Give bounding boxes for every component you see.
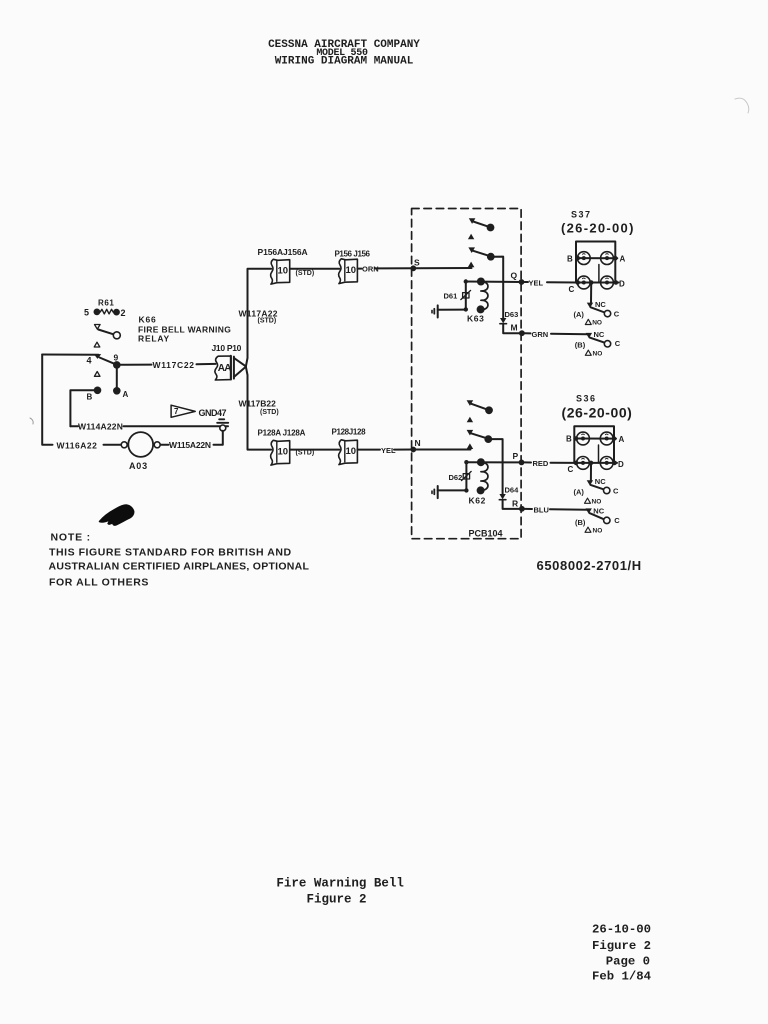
- diode D61 branch: [465, 282, 467, 310]
- ground GND47 indicator triangle 7: [171, 405, 195, 417]
- svg-text:D61: D61: [444, 292, 458, 301]
- svg-text:D: D: [619, 280, 625, 289]
- node Q: [519, 279, 525, 285]
- svg-text:(26-20-00): (26-20-00): [561, 221, 635, 236]
- wire W115A22N: [160, 431, 223, 445]
- svg-text:D63: D63: [505, 310, 519, 319]
- svg-text:NO: NO: [593, 350, 603, 357]
- svg-text:10: 10: [346, 446, 357, 457]
- svg-text:26-10-00: 26-10-00: [592, 923, 651, 937]
- svg-text:RELAY: RELAY: [138, 334, 170, 344]
- triangle marker K62: [467, 417, 473, 423]
- svg-text:C: C: [613, 486, 619, 495]
- S36 switch (A) NC contact: [587, 480, 593, 485]
- svg-text:B: B: [566, 435, 572, 444]
- contact 9: [113, 361, 121, 369]
- node S: [410, 265, 416, 271]
- ground GND47 symbol: [219, 418, 224, 420]
- S36 B-A row line: [574, 438, 616, 440]
- S37 C-D row line: [577, 282, 619, 284]
- svg-text:W115A22N: W115A22N: [169, 440, 211, 450]
- svg-text:(STD): (STD): [296, 270, 315, 277]
- svg-text:4: 4: [87, 356, 92, 366]
- wire to contact 4: [42, 354, 98, 356]
- connector J10 P10 (AA): [215, 356, 231, 380]
- switch arm 4-9: [100, 358, 115, 364]
- node R: [519, 506, 525, 512]
- contact B: [94, 387, 102, 395]
- wire with (STD) label: [290, 268, 339, 270]
- diode D64: [499, 494, 505, 499]
- S37 switch (A) arm: [591, 307, 605, 312]
- S36 lamp C: [577, 457, 590, 470]
- svg-text:P: P: [513, 451, 519, 461]
- wire W117A22 vertical: [246, 269, 271, 367]
- S36 switch (A) drop wire: [590, 465, 592, 480]
- scan artifact arc top right: [735, 98, 749, 113]
- svg-text:P128J128: P128J128: [332, 427, 367, 436]
- svg-text:R: R: [512, 499, 518, 509]
- contact 4 arrow: [94, 354, 101, 359]
- diode D62 symbol: [463, 474, 469, 479]
- diode D61 symbol: [463, 293, 469, 298]
- connector P156 J156: [339, 259, 358, 284]
- svg-text:D64: D64: [505, 486, 520, 495]
- svg-text:10: 10: [346, 265, 357, 276]
- svg-text:A03: A03: [129, 461, 148, 471]
- svg-text:A: A: [619, 435, 625, 444]
- wire with (STD) label bottom: [290, 449, 339, 451]
- svg-text:WIRING DIAGRAM MANUAL: WIRING DIAGRAM MANUAL: [275, 56, 414, 68]
- wire D64 to node R: [503, 500, 522, 509]
- node N: [410, 447, 416, 453]
- dashed box PCB104: [412, 209, 521, 539]
- svg-text:(B): (B): [575, 341, 586, 350]
- svg-text:K66: K66: [139, 315, 157, 325]
- relay K63 contact arm 2: [468, 247, 475, 253]
- svg-text:B: B: [87, 393, 93, 402]
- svg-text:P156 J156: P156 J156: [335, 250, 371, 259]
- svg-text:(A): (A): [574, 310, 585, 319]
- svg-text:NO: NO: [593, 527, 603, 534]
- svg-text:N: N: [415, 438, 421, 448]
- svg-text:W117B22: W117B22: [239, 398, 277, 408]
- svg-text:C: C: [569, 285, 575, 294]
- S37 switch (A) NC contact: [587, 303, 593, 308]
- node M: [519, 330, 525, 336]
- svg-text:2: 2: [121, 308, 126, 318]
- svg-text:D: D: [618, 460, 624, 469]
- resistor R61: [94, 309, 101, 316]
- connector P128 J128: [339, 440, 358, 465]
- svg-text:Q: Q: [511, 271, 518, 281]
- svg-text:AUSTRALIAN CERTIFIED AIRPLANES: AUSTRALIAN CERTIFIED AIRPLANES, OPTIONAL: [49, 561, 310, 573]
- S36 switch (B) arm: [590, 513, 605, 519]
- svg-text:C: C: [568, 465, 574, 474]
- svg-text:NOTE :: NOTE :: [51, 532, 91, 544]
- wire W116A22: [42, 355, 121, 445]
- ground for K63 coil: [438, 309, 464, 311]
- S36 lamp A: [600, 432, 613, 445]
- S37 lamp D: [601, 276, 614, 289]
- connector P156A J156A: [271, 259, 290, 284]
- wire coil K63 to node Q: [466, 281, 522, 284]
- S36 C-D row line: [575, 462, 617, 464]
- svg-text:W116A22: W116A22: [57, 440, 98, 450]
- S37 B-A row line: [576, 257, 617, 259]
- svg-text:GRN: GRN: [532, 330, 549, 339]
- svg-text:FOR ALL OTHERS: FOR ALL OTHERS: [49, 577, 149, 589]
- S37 switch (B) NC contact: [586, 333, 592, 338]
- lamp assembly S36 body: [574, 426, 614, 463]
- svg-text:K62: K62: [469, 496, 486, 506]
- svg-text:NC: NC: [594, 330, 605, 339]
- svg-text:9: 9: [114, 353, 119, 363]
- svg-text:NO: NO: [592, 320, 602, 327]
- svg-text:W117C22: W117C22: [153, 360, 195, 370]
- svg-text:Page 0: Page 0: [606, 954, 650, 968]
- svg-text:W114A22N: W114A22N: [78, 422, 123, 432]
- svg-text:C: C: [614, 516, 620, 525]
- svg-text:S36: S36: [576, 394, 597, 404]
- svg-text:BLU: BLU: [534, 505, 549, 514]
- wire coil K62 to node P: [466, 461, 521, 463]
- svg-text:THIS FIGURE STANDARD FOR BRITI: THIS FIGURE STANDARD FOR BRITISH AND: [49, 547, 292, 559]
- bell A03: [128, 432, 153, 457]
- svg-text:AA: AA: [218, 363, 231, 374]
- svg-text:C: C: [615, 339, 621, 348]
- svg-text:(B): (B): [575, 518, 586, 527]
- svg-text:(STD): (STD): [296, 450, 315, 457]
- svg-text:7: 7: [174, 407, 179, 416]
- wire YEL into pcb: [357, 449, 413, 451]
- triangle marker K63: [468, 234, 474, 240]
- svg-text:B: B: [567, 255, 573, 264]
- svg-text:NC: NC: [593, 506, 604, 515]
- S37 lamp B: [577, 252, 590, 265]
- svg-text:5: 5: [84, 308, 89, 318]
- K62 fixed contact triangle: [467, 443, 474, 449]
- S37 switch (B) NO marker: [585, 350, 591, 355]
- svg-text:K63: K63: [467, 314, 484, 324]
- K66 auxiliary contact switch: [95, 325, 101, 330]
- svg-text:NC: NC: [595, 300, 606, 309]
- S36 switch (A) arm: [591, 485, 604, 490]
- svg-text:RED: RED: [533, 459, 549, 468]
- wire from B down to W114A22N: [70, 390, 94, 426]
- relay coil K62: [481, 462, 488, 490]
- svg-text:(26-20-00): (26-20-00): [562, 405, 633, 421]
- svg-text:YEL: YEL: [381, 446, 396, 455]
- svg-text:P128A J128A: P128A J128A: [258, 429, 306, 438]
- svg-text:Fire Warning Bell: Fire Warning Bell: [276, 877, 404, 891]
- connector fan-out wires: [234, 358, 246, 377]
- svg-text:(STD): (STD): [260, 409, 279, 416]
- svg-text:M: M: [511, 323, 518, 333]
- relay K62 contact arm 1: [467, 400, 474, 406]
- svg-text:ORN: ORN: [362, 265, 379, 274]
- wire N to K62 contact: [413, 449, 470, 451]
- svg-text:6508002-2701/H: 6508002-2701/H: [537, 558, 642, 573]
- S37 switch (A) drop wire: [590, 285, 592, 303]
- svg-text:J10 P10: J10 P10: [212, 343, 242, 353]
- wire W114A22N: [70, 425, 228, 427]
- S36 switch (A) NO marker: [585, 498, 591, 503]
- lamp assembly S37 body: [576, 242, 615, 283]
- svg-text:Figure 2: Figure 2: [307, 893, 367, 907]
- wire D63 to node M: [503, 324, 522, 333]
- svg-text:Figure 2: Figure 2: [592, 939, 651, 953]
- svg-text:S: S: [414, 258, 420, 268]
- triangle marker above contact 4: [94, 342, 100, 347]
- svg-text:10: 10: [278, 447, 289, 458]
- ground for K62 coil: [438, 489, 465, 491]
- S36 switch (B) NC contact: [586, 508, 592, 513]
- S37 lamp A: [601, 252, 614, 265]
- wire BLU from node R: [525, 508, 588, 511]
- wire YEL from node Q: [524, 281, 577, 284]
- stray scan mark left edge: [30, 418, 33, 424]
- relay K62 contact arm 2: [467, 430, 474, 436]
- wire RED from node P: [524, 461, 575, 464]
- S36 lamp B: [577, 432, 590, 445]
- tiny mark near mid line: [597, 276, 600, 279]
- S37 switch (B) arm: [590, 338, 605, 343]
- ink mark (hand stamp): [100, 505, 134, 525]
- relay K63 contact arm 1: [469, 218, 476, 224]
- svg-text:10: 10: [278, 266, 289, 277]
- S37 switch (A) NO marker: [585, 319, 591, 324]
- wire arm2 to D63 branch: [491, 257, 503, 318]
- triangle marker above contact B: [94, 372, 100, 377]
- svg-text:R61: R61: [98, 299, 114, 308]
- wire S to K63 contact: [413, 267, 471, 269]
- wire GRN from node M: [525, 333, 588, 334]
- wire arm2 to D64 branch: [488, 439, 502, 494]
- svg-text:D62: D62: [449, 473, 463, 482]
- node P: [519, 460, 525, 466]
- S36 lamp D: [600, 457, 613, 470]
- relay coil K63: [481, 282, 488, 310]
- svg-text:P156AJ156A: P156AJ156A: [258, 247, 308, 257]
- svg-text:S37: S37: [571, 210, 592, 220]
- diode D62 branch: [465, 462, 467, 490]
- svg-text:Feb 1/84: Feb 1/84: [592, 970, 652, 984]
- svg-text:PCB104: PCB104: [469, 529, 503, 539]
- svg-text:(A): (A): [574, 488, 585, 497]
- contact A: [113, 387, 121, 395]
- S36 switch (B) NO marker: [585, 527, 591, 532]
- svg-text:C: C: [614, 310, 620, 319]
- wire W117C22: [121, 363, 216, 366]
- svg-text:NC: NC: [595, 477, 606, 486]
- wire ORN: [357, 267, 413, 269]
- svg-text:(STD): (STD): [258, 318, 277, 325]
- S37 lamp C: [577, 276, 590, 289]
- wire W117B22 vertical: [246, 367, 271, 450]
- svg-text:A: A: [123, 390, 129, 399]
- svg-text:A: A: [620, 255, 626, 264]
- connector P128A J128A: [271, 440, 290, 465]
- svg-text:NO: NO: [592, 498, 602, 505]
- svg-text:YEL: YEL: [529, 278, 544, 287]
- svg-text:GND47: GND47: [199, 408, 227, 418]
- diode D63: [500, 318, 506, 323]
- wire 9 to A: [116, 365, 118, 391]
- K63 fixed contact triangle: [468, 262, 475, 268]
